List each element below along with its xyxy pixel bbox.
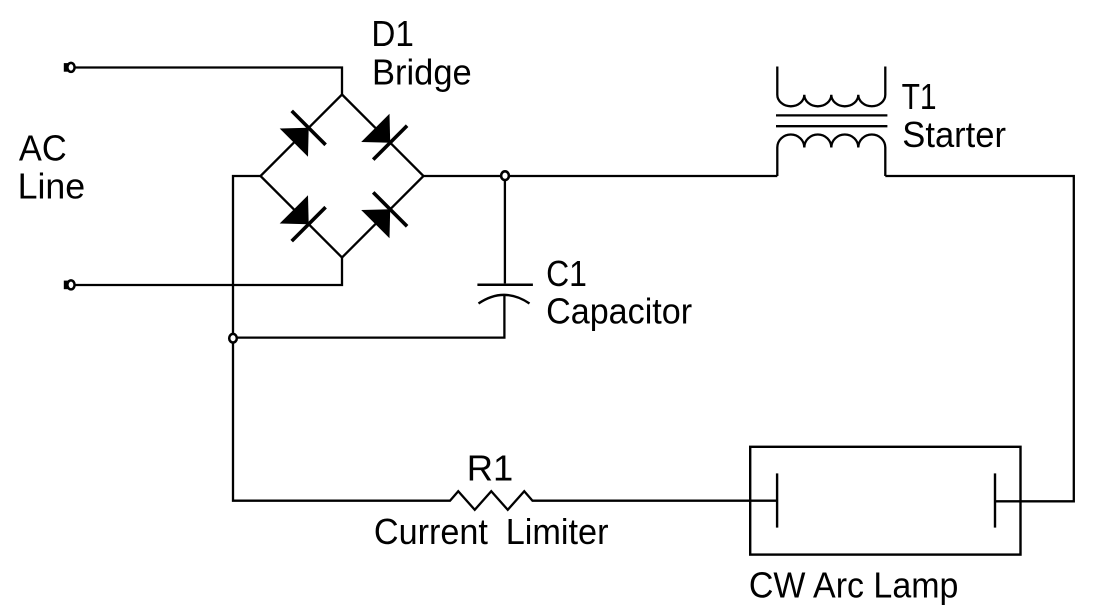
svg-text:D1: D1 (371, 13, 414, 54)
svg-text:Line: Line (18, 166, 86, 207)
svg-text:C1: C1 (546, 253, 587, 294)
svg-text:Current: Current (374, 511, 488, 552)
svg-text:Starter: Starter (902, 114, 1006, 155)
svg-text:Limiter: Limiter (506, 511, 609, 552)
svg-text:Capacitor: Capacitor (546, 290, 692, 331)
svg-text:CW Arc Lamp: CW Arc Lamp (749, 564, 959, 605)
svg-text:R1: R1 (467, 448, 514, 489)
svg-text:T1: T1 (902, 76, 937, 117)
svg-text:Bridge: Bridge (372, 51, 472, 92)
svg-text:AC: AC (19, 128, 67, 169)
